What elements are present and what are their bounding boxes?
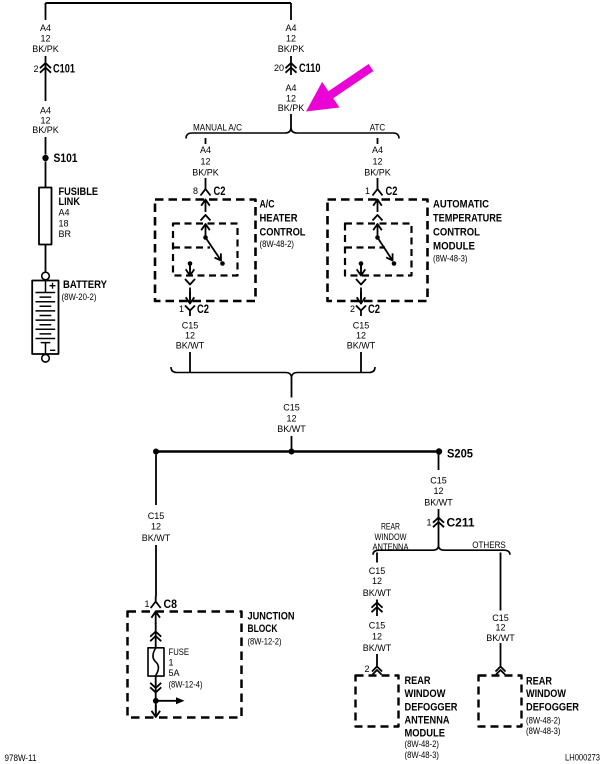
svg-text:BK/WT: BK/WT bbox=[363, 643, 392, 653]
wire antenna branch above inline connector bbox=[376, 600, 378, 617]
module pin 2 female legs bbox=[372, 667, 382, 672]
wire right drop from rail bbox=[290, 3, 292, 20]
svg-text:C15: C15 bbox=[369, 566, 386, 576]
svg-text:12: 12 bbox=[356, 330, 366, 340]
wire C15 right branch bbox=[360, 352, 362, 372]
connector C8 female half bbox=[151, 597, 161, 609]
svg-text:BK/PK: BK/PK bbox=[278, 103, 305, 113]
wire A4 to C2 pin 1 atc bbox=[377, 178, 379, 184]
split brace MANUAL A/C / ATC bbox=[186, 128, 399, 139]
svg-text:BK/WT: BK/WT bbox=[277, 424, 306, 434]
svg-text:12: 12 bbox=[433, 486, 443, 496]
wire fuse to splice dot bbox=[155, 676, 157, 699]
svg-text:DEFOGGER: DEFOGGER bbox=[526, 701, 579, 713]
svg-text:C15: C15 bbox=[369, 621, 386, 631]
connector C2 pin 1 atc female half bbox=[373, 184, 383, 196]
module pin 2 male chevron bbox=[373, 670, 382, 675]
svg-text:12: 12 bbox=[372, 156, 382, 166]
battery bottom terminal circle bbox=[42, 355, 50, 363]
svg-text:(8W-48-2): (8W-48-2) bbox=[260, 239, 295, 249]
svg-text:12: 12 bbox=[286, 94, 296, 104]
battery top terminal circle bbox=[42, 272, 50, 280]
svg-text:BK/PK: BK/PK bbox=[278, 44, 305, 54]
svg-text:C211: C211 bbox=[447, 518, 476, 530]
battery internal top stub bbox=[45, 281, 47, 293]
battery plates bbox=[36, 293, 56, 339]
svg-text:BK/PK: BK/PK bbox=[32, 44, 59, 54]
svg-text:C2: C2 bbox=[197, 304, 209, 316]
svg-text:1: 1 bbox=[179, 304, 184, 314]
svg-text:ANTENNA: ANTENNA bbox=[373, 542, 409, 552]
svg-text:MANUAL A/C: MANUAL A/C bbox=[193, 123, 242, 133]
svg-text:A4: A4 bbox=[285, 23, 296, 33]
svg-text:12: 12 bbox=[286, 34, 296, 44]
wire C15 left branch bbox=[189, 352, 191, 372]
svg-text:(8W-48-3): (8W-48-3) bbox=[405, 750, 440, 760]
svg-text:BK/WT: BK/WT bbox=[142, 533, 171, 543]
svg-text:S205: S205 bbox=[447, 449, 474, 461]
switch right contact dot bbox=[220, 261, 225, 266]
svg-text:BK/PK: BK/PK bbox=[364, 167, 391, 177]
svg-text:REAR: REAR bbox=[381, 522, 400, 532]
atc inner box divider dashed bbox=[345, 246, 385, 248]
splice S205 bus line bbox=[156, 450, 439, 452]
switch left contact dot bbox=[188, 261, 193, 266]
svg-text:2: 2 bbox=[33, 64, 38, 74]
svg-text:BK/PK: BK/PK bbox=[32, 125, 59, 135]
atc switch left contact dot bbox=[359, 261, 364, 266]
svg-text:(8W-48-3): (8W-48-3) bbox=[433, 254, 468, 264]
svg-text:A4: A4 bbox=[40, 106, 51, 116]
svg-text:C15: C15 bbox=[430, 476, 447, 486]
atc inner box exit male arrow down bbox=[357, 264, 366, 276]
atc inner box exit female chevron down bbox=[356, 279, 366, 285]
svg-text:12: 12 bbox=[200, 156, 210, 166]
svg-text:12: 12 bbox=[185, 330, 195, 340]
svg-text:C8: C8 bbox=[164, 599, 178, 611]
switch blade diagonal bbox=[206, 238, 222, 261]
svg-text:C110: C110 bbox=[299, 63, 321, 75]
inner connection male arrow bbox=[201, 224, 210, 237]
atc switch blade diagonal bbox=[378, 238, 393, 261]
junction block splice dot bbox=[153, 698, 159, 704]
wire top feed rail bbox=[46, 2, 292, 4]
svg-text:C15: C15 bbox=[492, 613, 509, 623]
highlight arrow (magenta) bbox=[306, 64, 373, 112]
svg-text:C2: C2 bbox=[386, 186, 398, 198]
svg-text:C15: C15 bbox=[182, 320, 199, 330]
svg-text:(8W-48-3): (8W-48-3) bbox=[526, 726, 561, 736]
svg-text:MODULE: MODULE bbox=[405, 727, 446, 739]
splice S101 bbox=[42, 155, 48, 161]
wire others branch bbox=[500, 553, 502, 611]
junction block inline connector down bbox=[150, 683, 161, 693]
fusible link body bbox=[39, 188, 52, 245]
svg-text:A4: A4 bbox=[372, 145, 383, 155]
battery plus sign bbox=[50, 283, 56, 289]
svg-text:12: 12 bbox=[151, 521, 161, 531]
svg-text:LINK: LINK bbox=[59, 196, 81, 208]
svg-text:AUTOMATIC: AUTOMATIC bbox=[433, 199, 489, 211]
wire C15 below merge bbox=[291, 378, 293, 398]
connector C211 bbox=[433, 518, 444, 528]
wire fusible link to battery bbox=[45, 245, 47, 273]
fuse 1 body bbox=[148, 648, 164, 676]
svg-text:C15: C15 bbox=[148, 511, 165, 521]
wire splice dot to box exit bbox=[155, 701, 157, 713]
svg-text:BK/WT: BK/WT bbox=[176, 340, 205, 350]
wire to C2 pin 1 bbox=[189, 288, 191, 300]
svg-text:BLOCK: BLOCK bbox=[248, 623, 278, 635]
svg-text:A4: A4 bbox=[200, 145, 211, 155]
wire stub antenna branch bbox=[376, 553, 378, 563]
svg-text:2: 2 bbox=[364, 664, 369, 674]
svg-text:C15: C15 bbox=[353, 320, 370, 330]
connector C2 pin 2 female half bbox=[356, 306, 366, 317]
svg-text:1: 1 bbox=[365, 186, 370, 196]
A/C heater control outer dashed box bbox=[155, 200, 256, 302]
svg-text:BK/PK: BK/PK bbox=[192, 167, 219, 177]
wire stub atc branch bbox=[377, 138, 379, 144]
svg-text:8: 8 bbox=[193, 186, 198, 196]
svg-text:REAR: REAR bbox=[526, 675, 552, 687]
switch common node dot bbox=[203, 235, 208, 240]
connector C101 bbox=[40, 63, 51, 73]
svg-text:(8W-20-2): (8W-20-2) bbox=[62, 292, 97, 302]
svg-text:ANTENNA: ANTENNA bbox=[405, 714, 450, 726]
inner connection female chevron bbox=[201, 215, 211, 221]
svg-text:12: 12 bbox=[40, 116, 50, 126]
svg-text:C2: C2 bbox=[368, 304, 380, 316]
splice bus left dot bbox=[153, 449, 159, 455]
svg-text:TEMPERATURE: TEMPERATURE bbox=[433, 213, 502, 225]
svg-text:1: 1 bbox=[144, 599, 149, 609]
wire C8 to fuse bbox=[155, 623, 157, 648]
wire others branch to defogger bbox=[500, 643, 502, 667]
svg-text:1: 1 bbox=[426, 518, 431, 528]
defogger pin female legs bbox=[496, 667, 506, 672]
box exit male arrow down bbox=[152, 705, 161, 717]
feed-out arrow line bbox=[156, 700, 176, 702]
battery bottom stub and crossbar bbox=[41, 343, 51, 354]
connector C110 bbox=[286, 63, 297, 73]
fuse 1 element curve bbox=[153, 648, 159, 676]
battery minus sign bbox=[50, 349, 55, 351]
atc switch blade arrowhead bbox=[386, 253, 392, 260]
svg-text:LH000273: LH000273 bbox=[565, 753, 600, 763]
atc inner connection male arrow bbox=[373, 224, 382, 237]
rear window defogger antenna module dashed box bbox=[356, 676, 399, 727]
feed-out arrowhead bbox=[176, 697, 185, 704]
svg-text:MODULE: MODULE bbox=[433, 241, 475, 253]
svg-text:2: 2 bbox=[350, 304, 355, 314]
split brace rear window antenna / others bbox=[373, 546, 510, 555]
wire from left contact bbox=[189, 264, 191, 270]
defogger pin male chevron bbox=[496, 670, 505, 675]
wire A4 above C101 bbox=[45, 56, 47, 101]
svg-text:BR: BR bbox=[59, 229, 72, 239]
svg-text:A/C: A/C bbox=[260, 199, 275, 211]
svg-text:20: 20 bbox=[274, 63, 284, 73]
svg-text:(8W-12-2): (8W-12-2) bbox=[248, 637, 282, 647]
battery B1 body bbox=[32, 281, 58, 355]
svg-text:BK/WT: BK/WT bbox=[424, 498, 453, 508]
svg-text:BK/WT: BK/WT bbox=[347, 340, 376, 350]
svg-text:C15: C15 bbox=[283, 403, 300, 413]
connector C2 pin 2 male half down bbox=[357, 292, 366, 304]
wire C15 above C211 bbox=[438, 509, 440, 529]
svg-text:A4: A4 bbox=[285, 83, 296, 93]
svg-text:ATC: ATC bbox=[370, 123, 386, 133]
svg-text:WINDOW: WINDOW bbox=[526, 688, 567, 700]
wire stub manual a/c branch bbox=[205, 138, 207, 144]
switch blade arrowhead bbox=[215, 253, 222, 260]
atc inner connection female chevron bbox=[373, 215, 383, 221]
splice bus center dot bbox=[289, 449, 295, 455]
svg-text:C2: C2 bbox=[214, 186, 226, 198]
connector C8 male half bbox=[151, 612, 160, 625]
svg-text:WINDOW: WINDOW bbox=[375, 532, 407, 542]
wire A4 below C101 bbox=[45, 137, 47, 155]
svg-text:1: 1 bbox=[169, 658, 174, 668]
wire C211 to split bbox=[438, 529, 440, 546]
atc switch common node dot bbox=[375, 235, 380, 240]
svg-text:BK/WT: BK/WT bbox=[363, 588, 392, 598]
wire C15 to C8 bbox=[155, 545, 157, 597]
inner box exit male arrow down bbox=[186, 264, 195, 276]
wire A4 below C110 bbox=[290, 114, 292, 128]
splice S205 dot bbox=[436, 448, 442, 454]
inner box divider dashed bbox=[173, 246, 210, 248]
svg-text:FUSE: FUSE bbox=[169, 647, 190, 657]
svg-text:(8W-48-2): (8W-48-2) bbox=[526, 715, 561, 725]
connector C2 pin 8 female half bbox=[201, 184, 211, 196]
rear window defogger dashed box bbox=[479, 676, 522, 727]
ATC module outer dashed box bbox=[328, 200, 428, 302]
svg-text:A4: A4 bbox=[59, 208, 70, 218]
svg-text:HEATER: HEATER bbox=[260, 213, 298, 225]
svg-text:(8W-12-4): (8W-12-4) bbox=[169, 679, 203, 689]
wire left drop from rail bbox=[45, 3, 47, 20]
inner box exit female chevron down bbox=[185, 279, 195, 285]
svg-text:12: 12 bbox=[40, 34, 50, 44]
svg-text:12: 12 bbox=[372, 576, 382, 586]
svg-text:18: 18 bbox=[59, 218, 69, 228]
svg-text:OTHERS: OTHERS bbox=[472, 540, 506, 550]
svg-text:CONTROL: CONTROL bbox=[260, 227, 306, 239]
junction block dashed box bbox=[128, 612, 242, 718]
svg-text:12: 12 bbox=[495, 622, 505, 632]
svg-text:(8W-48-2): (8W-48-2) bbox=[405, 739, 440, 749]
svg-text:12: 12 bbox=[286, 413, 296, 423]
atc switch right contact dot bbox=[392, 261, 397, 266]
wire S101 to fusible link bbox=[45, 162, 47, 188]
wire antenna branch to module bbox=[376, 654, 378, 667]
svg-text:978W-11: 978W-11 bbox=[5, 753, 37, 763]
connector C2 pin 1 male half down bbox=[186, 292, 195, 304]
wire C15 to splice bus bbox=[291, 436, 293, 452]
connector C2 pin 8 male half bbox=[201, 200, 210, 213]
wire A4 to C2 pin 8 bbox=[205, 178, 207, 184]
svg-text:JUNCTION: JUNCTION bbox=[248, 611, 295, 623]
connector C2 pin 1 atc male half bbox=[373, 200, 382, 213]
svg-text:BATTERY: BATTERY bbox=[63, 279, 108, 291]
atc wire to C2 pin 2 bbox=[360, 288, 362, 300]
connector C2 pin 1 female half bbox=[185, 306, 195, 317]
A/C heater control inner dashed box bbox=[173, 224, 238, 276]
atc wire from left contact bbox=[360, 264, 362, 270]
svg-text:BK/WT: BK/WT bbox=[486, 633, 515, 643]
wire S205 down bbox=[438, 455, 440, 471]
svg-text:S101: S101 bbox=[54, 153, 79, 165]
svg-text:REAR: REAR bbox=[405, 675, 431, 687]
svg-text:CONTROL: CONTROL bbox=[433, 227, 480, 239]
svg-text:A4: A4 bbox=[40, 23, 51, 33]
svg-text:5A: 5A bbox=[169, 668, 180, 678]
merge brace under branches bbox=[171, 367, 375, 378]
svg-text:WINDOW: WINDOW bbox=[405, 688, 447, 700]
junction block inline connector up bbox=[150, 632, 161, 642]
wire A4 above C110 bbox=[290, 56, 292, 75]
svg-text:12: 12 bbox=[372, 631, 382, 641]
inline connector antenna branch bbox=[372, 603, 383, 613]
svg-text:C101: C101 bbox=[53, 64, 75, 76]
ATC module inner dashed box bbox=[345, 224, 412, 276]
svg-text:DEFOGGER: DEFOGGER bbox=[405, 701, 458, 713]
wire S205 left leg down bbox=[155, 455, 157, 506]
